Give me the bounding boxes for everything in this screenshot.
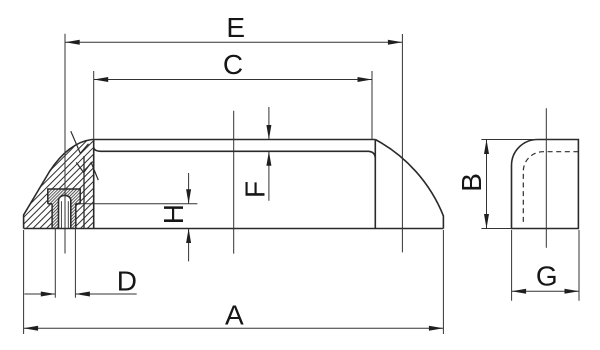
surface finish symbol 2	[76, 162, 98, 180]
dim D	[24, 293, 55, 295]
insert U1 outline	[48, 189, 80, 204]
svg-text:D: D	[117, 265, 137, 296]
right grip edge vertical	[374, 140, 376, 229]
outer profile of handle (front view)	[24, 140, 376, 229]
dim C line	[94, 79, 372, 81]
hidden inner wall (dashed)	[523, 152, 578, 224]
svg-text:E: E	[226, 12, 245, 43]
svg-text:C: C	[223, 49, 243, 80]
tapped hole outline with dome top	[59, 195, 71, 228]
dim G line	[512, 290, 579, 292]
svg-text:A: A	[225, 299, 244, 330]
insert fine hatch	[48, 189, 80, 229]
inner cavity wall edge	[83, 156, 85, 229]
dim B line	[486, 140, 488, 229]
right hole centerline	[401, 34, 403, 252]
dim G extension lines	[511, 230, 513, 301]
C extension lines	[93, 71, 95, 140]
svg-text:G: G	[536, 260, 558, 291]
side view outline	[512, 140, 579, 229]
right end sweep curve	[375, 140, 443, 229]
side view centerline	[545, 108, 547, 248]
dim H arrows	[188, 173, 190, 204]
bottom edge	[24, 228, 444, 230]
svg-text:H: H	[158, 204, 189, 224]
dim B extension lines	[481, 139, 537, 141]
hole centerline	[64, 34, 66, 254]
tapped hole bore (white)	[59, 195, 71, 228]
dim H extension line	[80, 203, 197, 205]
dim F arrows	[268, 107, 270, 140]
part centerline	[233, 111, 235, 254]
inner top line (wall)	[94, 148, 376, 159]
insert U1 body blank (clears hatch)	[48, 189, 80, 229]
D extension lines	[54, 229, 56, 298]
svg-text:B: B	[456, 173, 487, 192]
thread major diameter thin lines	[60, 201, 62, 228]
section break boundary	[93, 140, 95, 229]
dim E line	[65, 41, 402, 43]
section hatched area (left broken-out section of handle)	[24, 140, 94, 229]
dim A line	[24, 327, 444, 329]
A extension lines	[23, 230, 25, 334]
surface finish symbol 1	[71, 131, 89, 153]
svg-text:F: F	[240, 181, 271, 198]
